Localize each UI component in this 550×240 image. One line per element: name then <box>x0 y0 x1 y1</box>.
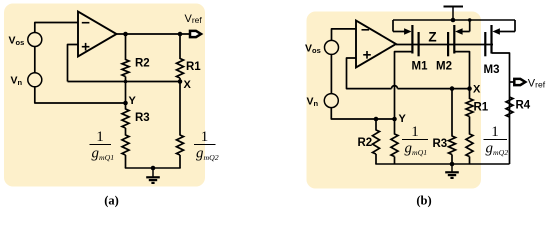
svg-text:gmQ2: gmQ2 <box>486 141 509 157</box>
op-amp U2 <box>356 21 396 68</box>
M2 drain wire to X <box>454 52 469 89</box>
wire Vn bottom to node Y <box>35 87 125 103</box>
svg-text:R2: R2 <box>358 137 373 149</box>
svg-text:X: X <box>184 79 192 91</box>
wire R3 to gmQ1 resistor <box>125 128 127 136</box>
svg-text:R2: R2 <box>135 58 150 70</box>
wire hop over M1 drain column <box>392 86 398 89</box>
gate line from op-amp output <box>396 44 493 46</box>
svg-text:1: 1 <box>491 124 499 140</box>
ground <box>146 166 160 183</box>
label 1/gmQ2 (b) <box>484 124 509 157</box>
svg-text:Vref: Vref <box>528 77 546 89</box>
transistor M2 <box>436 20 470 73</box>
node Y <box>123 95 136 107</box>
resistor 1/gmQ2 <box>177 135 184 155</box>
M1 drain wire down to Y <box>395 52 413 119</box>
wire non-inverting input down (b) <box>347 58 392 89</box>
resistor R3 (b) <box>433 136 456 155</box>
node X <box>178 79 192 91</box>
junction R2/feedback <box>124 80 128 84</box>
wire between Vos and Vn <box>34 47 36 73</box>
wire gmQ2 bottom (b) <box>469 157 471 165</box>
wire R3 top (b) <box>451 89 453 137</box>
svg-text:1: 1 <box>201 129 209 145</box>
resistor R1 (b) <box>466 99 489 117</box>
wire Y to gmQ1 (b) <box>394 119 396 135</box>
wire gmQ2 to bottom rail <box>179 155 181 168</box>
output port Vref <box>185 13 203 37</box>
wire Vos top to op-amp inverting input <box>35 23 78 33</box>
wire R1 to gmQ2 (b) <box>469 117 471 135</box>
label 1/gmQ2 <box>194 129 219 162</box>
svg-text:R1: R1 <box>474 102 489 114</box>
bottom rail (b) <box>375 163 509 165</box>
output port Vref (b) <box>510 77 546 89</box>
svg-text:gmQ2: gmQ2 <box>196 146 219 162</box>
source Vn (b) <box>307 94 339 108</box>
label 1/gmQ1 <box>90 129 115 162</box>
node junction above R2 <box>123 32 128 37</box>
svg-text:R1: R1 <box>186 61 201 73</box>
wire output to R2 <box>125 34 127 60</box>
M3 drain wire down <box>492 53 510 164</box>
resistor R4 <box>506 97 531 117</box>
svg-text:M3: M3 <box>484 64 500 76</box>
yellow panel (a) <box>4 4 205 187</box>
resistor R2 <box>122 58 150 77</box>
svg-text:(b): (b) <box>416 194 431 208</box>
node junction above R1 <box>178 32 183 37</box>
svg-text:1: 1 <box>411 124 419 140</box>
wire Vos top to op-amp inverting input (b) <box>332 29 357 41</box>
resistor 1/gmQ1 (b) <box>391 134 398 156</box>
wire R2 top <box>375 119 377 131</box>
svg-text:X: X <box>473 84 481 96</box>
svg-text:(a): (a) <box>104 194 119 208</box>
ground (b) <box>445 162 459 178</box>
svg-text:M2: M2 <box>436 61 452 73</box>
op-amp U1 <box>78 12 117 57</box>
wire op-amp output rail <box>117 33 191 35</box>
wire op-amp non-inverting input to feedback node <box>68 45 79 82</box>
resistor R1 <box>177 59 202 79</box>
transistor M3 <box>484 20 516 76</box>
svg-text:Vref: Vref <box>185 13 203 25</box>
svg-text:R3: R3 <box>135 112 150 124</box>
wire X to R1 (b) <box>469 89 471 99</box>
resistor 1/gmQ1 <box>122 135 129 155</box>
wire R3 bottom (b) <box>451 155 453 165</box>
bottom rail <box>125 167 181 169</box>
wire feedback rail to node X <box>68 81 181 83</box>
wire feedback to node X (b) <box>398 88 470 90</box>
wire output to R1 <box>179 34 181 59</box>
svg-text:Y: Y <box>399 113 407 125</box>
yellow panel (b) <box>307 12 482 189</box>
wire Vn bottom to node Y (b) <box>331 108 393 119</box>
junction M2 source on rail <box>468 18 472 22</box>
wire gmQ1 to bottom rail <box>125 155 127 168</box>
wire between Vos and Vn (b) <box>330 54 332 93</box>
svg-text:R4: R4 <box>516 100 531 112</box>
svg-text:1: 1 <box>96 129 104 145</box>
node X (b) <box>467 84 481 96</box>
resistor 1/gmQ2 (b) <box>466 134 473 156</box>
source Vos <box>9 33 42 48</box>
svg-text:Z: Z <box>428 30 436 45</box>
source Vn <box>11 73 42 87</box>
wire gmQ1 bottom (b) <box>394 157 396 165</box>
label 1/gmQ1 (b) <box>402 124 428 157</box>
transistor M1 <box>393 20 428 73</box>
top supply rail <box>393 19 515 21</box>
source Vos (b) <box>305 40 339 55</box>
junction R3 top (b) <box>450 86 455 91</box>
wire R2 bottom through feedback junction to Y <box>125 77 127 110</box>
wire R2 bottom <box>375 154 377 164</box>
node Y (b) <box>392 113 406 125</box>
junction R2 top (b) <box>374 117 379 122</box>
svg-text:Y: Y <box>129 95 137 107</box>
resistor R3 <box>122 109 150 128</box>
VDD symbol <box>444 7 464 23</box>
wire X to gmQ2 resistor <box>179 78 181 136</box>
svg-text:M1: M1 <box>412 61 429 73</box>
resistor R2 (b) <box>358 130 380 154</box>
svg-text:R3: R3 <box>433 138 448 150</box>
